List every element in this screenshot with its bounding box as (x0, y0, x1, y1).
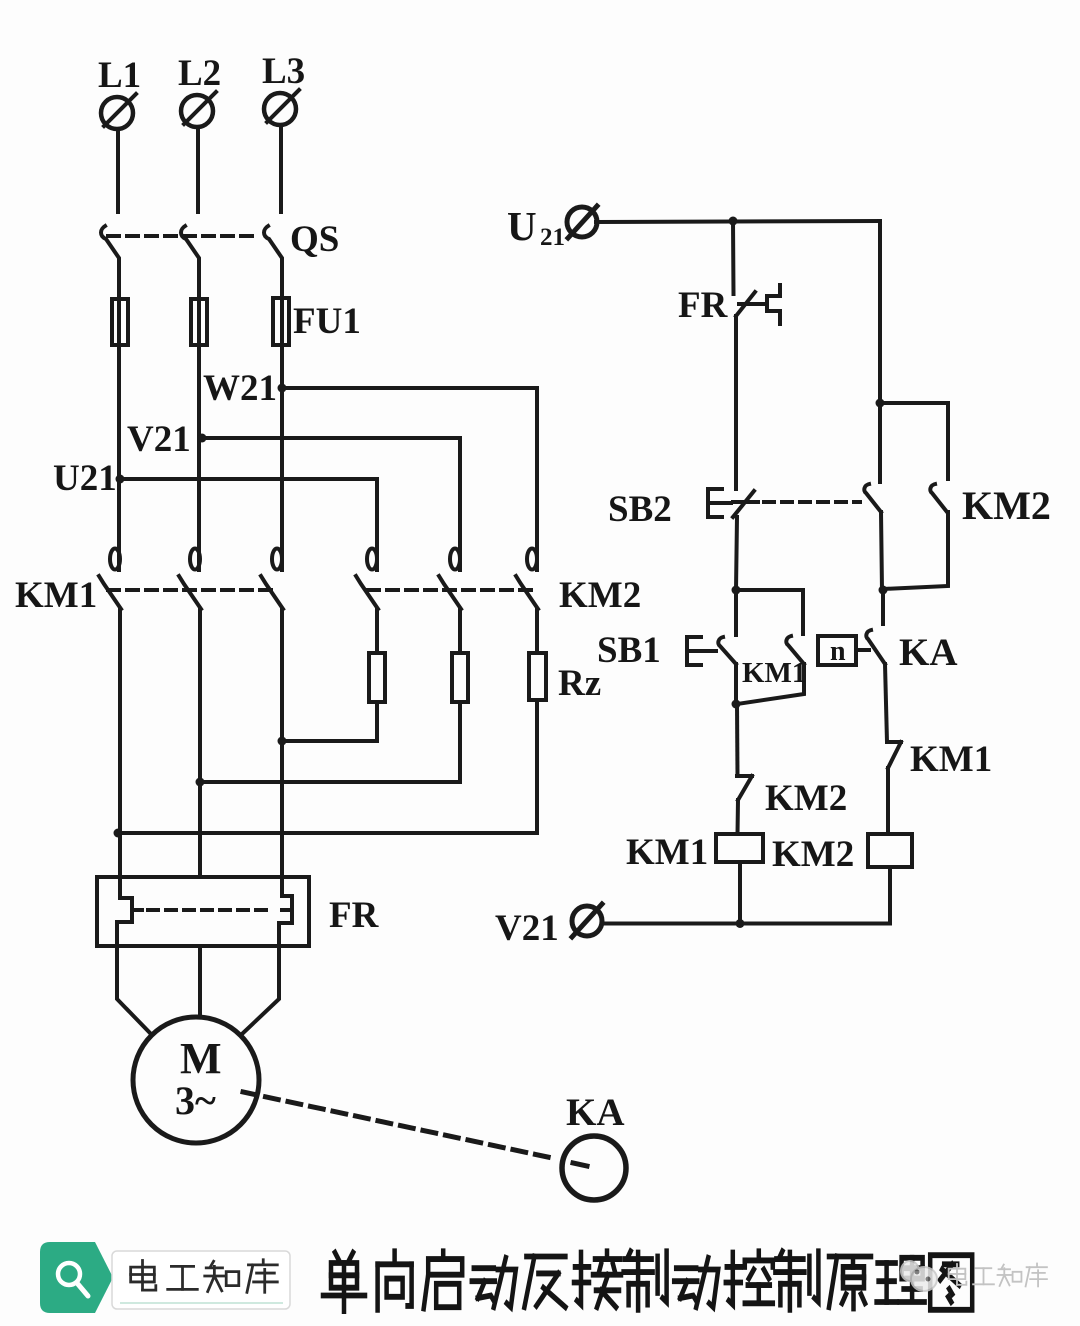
svg-text:KM1: KM1 (626, 832, 708, 873)
svg-text:U21: U21 (53, 458, 117, 499)
svg-text:3~: 3~ (175, 1078, 216, 1123)
svg-text:KM1: KM1 (15, 575, 97, 616)
svg-text:KM1: KM1 (742, 657, 806, 689)
svg-text:L2: L2 (178, 53, 221, 94)
svg-text:KM2: KM2 (559, 575, 641, 616)
svg-text:U: U (507, 203, 537, 249)
svg-text:21: 21 (540, 224, 565, 251)
svg-text:n: n (830, 636, 846, 667)
svg-text:L3: L3 (262, 51, 305, 92)
svg-text:L1: L1 (98, 55, 141, 96)
svg-text:Rz: Rz (558, 663, 601, 704)
svg-text:KM2: KM2 (962, 483, 1051, 528)
svg-text:FU1: FU1 (293, 301, 361, 342)
svg-text:KA: KA (566, 1091, 625, 1134)
svg-text:SB1: SB1 (597, 630, 661, 671)
svg-text:W21: W21 (203, 368, 277, 409)
svg-text:KM2: KM2 (765, 778, 847, 819)
svg-text:M: M (180, 1034, 222, 1083)
svg-text:KM1: KM1 (910, 739, 992, 780)
svg-text:KA: KA (899, 631, 958, 674)
svg-text:FR: FR (678, 285, 729, 326)
svg-text:V21: V21 (127, 419, 191, 460)
svg-text:V21: V21 (495, 908, 559, 949)
svg-text:KM2: KM2 (772, 834, 854, 875)
svg-text:QS: QS (290, 219, 339, 260)
svg-text:SB2: SB2 (608, 489, 672, 530)
svg-text:FR: FR (329, 895, 380, 936)
